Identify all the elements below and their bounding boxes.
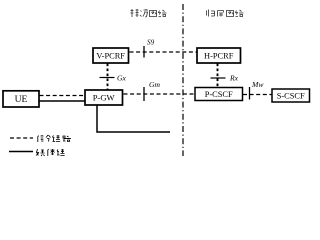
box P-GW <box>85 90 123 105</box>
wire Gx dashed: V-PCRF to P-GW <box>107 64 109 90</box>
svg-text:Rx: Rx <box>229 74 239 83</box>
svg-text:S-CSCF: S-CSCF <box>277 92 305 101</box>
svg-text:V-PCRF: V-PCRF <box>96 52 125 61</box>
wire Rx dashed: H-PCRF to P-CSCF <box>217 64 219 88</box>
wire media path from P-GW (solid L-shape) <box>97 106 170 133</box>
svg-text:H-PCRF: H-PCRF <box>204 52 234 61</box>
box S-CSCF <box>272 89 310 102</box>
legend dash after text <box>64 138 71 140</box>
svg-text:P-GW: P-GW <box>93 93 116 103</box>
wire Gm dashed: P-GW to P-CSCF <box>124 93 195 95</box>
box V-PCRF <box>93 48 129 63</box>
svg-text:Mw: Mw <box>251 80 264 89</box>
wire Mw dashed: P-CSCF to S-CSCF <box>243 94 272 96</box>
legend label media link (媒体链路) <box>36 149 65 156</box>
wire UE to P-GW signalling (dashed) <box>40 95 85 97</box>
svg-text:Gx: Gx <box>117 74 126 83</box>
Gm interface tick <box>143 87 145 101</box>
wire S9 dashed: V-PCRF to H-PCRF <box>130 51 197 53</box>
svg-text:S9: S9 <box>147 39 155 47</box>
Gx interface tick <box>100 77 115 79</box>
box P-CSCF <box>195 88 243 101</box>
box H-PCRF <box>197 48 241 63</box>
legend dashed line sample <box>10 137 33 139</box>
box UE <box>3 91 39 107</box>
network boundary line (dash-dot, visited/home separator) <box>182 4 184 156</box>
wire UE to P-GW media (solid) <box>40 100 85 102</box>
Rx interface tick <box>211 77 226 79</box>
svg-text:P-CSCF: P-CSCF <box>205 90 233 99</box>
svg-text:UE: UE <box>15 95 28 105</box>
S9 interface tick <box>143 46 145 58</box>
legend label signalling link (信令链路) <box>38 135 70 142</box>
header: visited network label (拜访网络) <box>131 9 167 17</box>
Mw interface tick <box>249 87 251 100</box>
svg-text:Gm: Gm <box>149 80 160 89</box>
header: home network label (归属网络) <box>207 10 244 17</box>
legend solid line sample <box>9 151 33 153</box>
